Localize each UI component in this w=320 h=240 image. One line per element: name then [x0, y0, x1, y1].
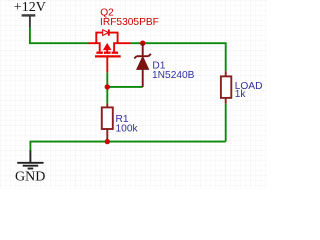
diode D1 zener [134, 43, 151, 87]
svg-text:IRF5305PBF: IRF5305PBF [100, 17, 159, 28]
wire +12V stem [29, 28, 31, 43]
node junction R1 bottom [105, 139, 110, 144]
wire MOSFET to LOAD corner [131, 43, 226, 71]
svg-text:100k: 100k [116, 123, 139, 134]
arrow [104, 44, 111, 50]
node junction top (drain/zener/load) [140, 41, 145, 46]
body diode [103, 30, 109, 36]
wire zener bottom to gate node [107, 86, 142, 88]
body diode rail [96, 33, 102, 44]
wire top left to MOSFET [29, 42, 89, 44]
channel plates [96, 52, 103, 54]
gate bar [95, 55, 121, 57]
svg-text:1k: 1k [235, 89, 247, 100]
wire gate down from MOSFET [106, 72, 108, 103]
resistor R1 [102, 104, 113, 139]
svg-text:GND: GND [15, 170, 45, 185]
background canvas [0, 0, 267, 189]
power flag +12V bar [22, 15, 36, 27]
transistor Q2 (P-MOSFET) [89, 29, 131, 72]
svg-text:1N5240B: 1N5240B [152, 70, 195, 81]
ground [17, 150, 43, 168]
svg-text:+12V: +12V [14, 0, 46, 15]
resistor LOAD [221, 71, 231, 104]
node junction gate [105, 84, 110, 89]
pin G down [106, 56, 108, 72]
wire LOAD bottom [225, 104, 227, 142]
pin D right [114, 43, 130, 51]
wire bottom rail [30, 142, 225, 151]
pin S left [89, 43, 100, 51]
